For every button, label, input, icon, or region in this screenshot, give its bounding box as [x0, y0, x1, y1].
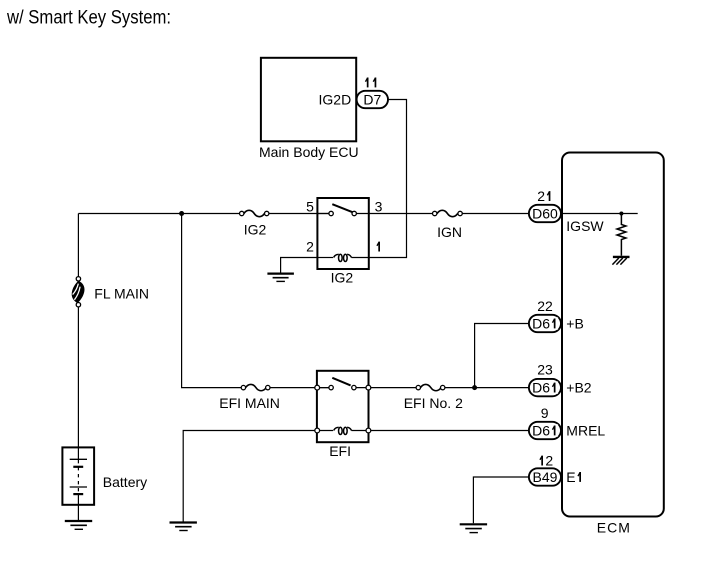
pin 2: [306, 239, 314, 255]
wire: battery to ground: [77, 494, 79, 520]
connector D61 (+B2): [529, 379, 561, 396]
digit 1 (connector D61 +B2): [550, 381, 558, 393]
svg-text:+B2: +B2: [566, 380, 592, 396]
node A junction dot (battery feed / EFI MAIN branch): [179, 211, 184, 216]
fusible link FL MAIN: [72, 277, 85, 307]
wire: relay EFI coil right to connector D61 MREL: [369, 430, 530, 432]
relay EFI box: [317, 371, 369, 442]
relay IG2 box: [317, 198, 368, 269]
label EFI (relay): [329, 443, 351, 459]
connector D60 (IGSW): [529, 205, 561, 222]
wire: vertical battery column: [77, 214, 79, 277]
label IGSW: [566, 218, 604, 234]
wire: relay right contact to IGN fuse: [356, 213, 432, 215]
pin 5: [306, 199, 314, 215]
wire: FL MAIN to battery: [77, 307, 79, 460]
svg-text:EFI: EFI: [329, 443, 351, 459]
label +B: [566, 315, 584, 331]
wire: D7 to IG2 relay pin 1: [369, 100, 407, 258]
wire: relay pin 2 to ground: [281, 258, 318, 273]
label MREL: [566, 422, 605, 438]
label IG2 (relay): [331, 270, 354, 286]
label +B2: [566, 380, 592, 396]
label IGN (fuse): [437, 224, 462, 240]
title: [6, 8, 171, 29]
label IG2D (pin name): [319, 91, 352, 107]
svg-text:2: 2: [306, 239, 314, 255]
pin 21: [537, 188, 553, 204]
fuse EFI MAIN: [241, 384, 270, 390]
wire: node A down to EFI MAIN row: [182, 214, 242, 388]
ground (EFI relay coil): [170, 523, 197, 531]
digit 1 (second of pin 11): [371, 76, 379, 88]
svg-text:MREL: MREL: [566, 422, 605, 438]
ground (battery): [65, 521, 92, 529]
svg-text:IG2D: IG2D: [319, 91, 352, 107]
fuse IG2: [240, 210, 269, 216]
resistor (IGSW pull-down): [617, 214, 626, 256]
ECM box: [562, 153, 664, 517]
svg-text:Main Body ECU: Main Body ECU: [259, 144, 359, 160]
wire: relay EFI coil left to ground: [183, 431, 317, 522]
wire: IGN fuse to connector D60: [462, 213, 529, 215]
svg-text:D60: D60: [532, 205, 558, 221]
wire: +B branch up to connector D61 +B: [475, 324, 529, 388]
label Battery: [103, 474, 147, 490]
label EFI No. 2: [404, 395, 463, 411]
battery: [62, 447, 94, 504]
pin 22: [537, 298, 553, 314]
node IGSW junction dot: [619, 212, 623, 216]
svg-text:B49: B49: [533, 469, 558, 485]
digit 1 (pin 12): [537, 454, 545, 466]
pin 3: [375, 199, 383, 215]
pin 23: [537, 361, 553, 377]
svg-text:5: 5: [306, 199, 314, 215]
svg-text:+B: +B: [566, 315, 584, 331]
label ECM: [597, 520, 631, 536]
pin 11: [364, 74, 379, 90]
wire: IG2 fuse to relay switch left contact: [269, 213, 329, 215]
chassis ground (IGSW resistor): [612, 257, 629, 265]
pin 9: [541, 405, 549, 421]
relay EFI switch: [317, 378, 416, 390]
svg-text:23: 23: [537, 361, 553, 377]
digit 1 (label E1): [575, 471, 583, 483]
svg-text:IG2: IG2: [331, 270, 354, 286]
svg-text:EFI No. 2: EFI No. 2: [404, 395, 463, 411]
wire: EFI MAIN fuse to relay EFI: [270, 387, 329, 389]
node B junction dot (+B branch): [472, 385, 477, 390]
connector B49 (E1): [529, 468, 561, 485]
digit 1 (first of pin 11): [363, 76, 371, 88]
svg-text:22: 22: [537, 298, 553, 314]
label Main Body ECU: [259, 144, 359, 160]
relay IG2 switch: [317, 204, 356, 216]
Main Body ECU box: [261, 58, 356, 142]
label FL MAIN: [94, 285, 149, 301]
svg-text:IG2: IG2: [244, 222, 267, 238]
wire: E1 to ground: [473, 477, 529, 523]
ground (E1): [460, 524, 487, 532]
svg-text:D7: D7: [363, 91, 381, 107]
digit 1 (connector D61 MREL): [550, 424, 558, 436]
relay EFI pin circles (switch row): [315, 385, 371, 390]
svg-text:IGSW: IGSW: [566, 218, 604, 234]
fuse EFI No. 2: [416, 384, 445, 390]
svg-text:EFI MAIN: EFI MAIN: [219, 395, 280, 411]
label E1: [566, 469, 583, 485]
label IG2 (fuse): [244, 222, 267, 238]
wire: battery column top to IG2 fuse (main row): [78, 213, 239, 215]
relay EFI coil: [317, 427, 369, 434]
wire: IGSW node inside ECM: [561, 213, 638, 215]
connector D7: [357, 91, 388, 108]
connector D61 (MREL): [529, 422, 561, 439]
digit 1 (relay pin 1): [374, 240, 382, 252]
relay IG2 coil: [317, 254, 368, 261]
svg-text:FL MAIN: FL MAIN: [94, 285, 149, 301]
digit 1 (connector D61 +B): [550, 317, 558, 329]
label EFI MAIN: [219, 395, 280, 411]
ground (IG2 relay coil): [267, 274, 294, 282]
svg-text:3: 3: [375, 199, 383, 215]
svg-text:9: 9: [541, 405, 549, 421]
pin 1: [375, 239, 383, 255]
fuse IGN: [433, 210, 463, 216]
svg-text:ECM: ECM: [597, 520, 631, 536]
wire: EFI No.2 fuse to connector D61 +B2: [445, 387, 529, 389]
digit 1 (pin 21): [545, 190, 553, 202]
pin 12: [538, 453, 554, 469]
relay EFI pin circles (coil row): [315, 428, 371, 433]
svg-text:w/ Smart Key System:: w/ Smart Key System:: [6, 8, 171, 29]
connector D61 (+B): [529, 315, 561, 332]
svg-text:Battery: Battery: [103, 474, 147, 490]
svg-text:IGN: IGN: [437, 224, 462, 240]
